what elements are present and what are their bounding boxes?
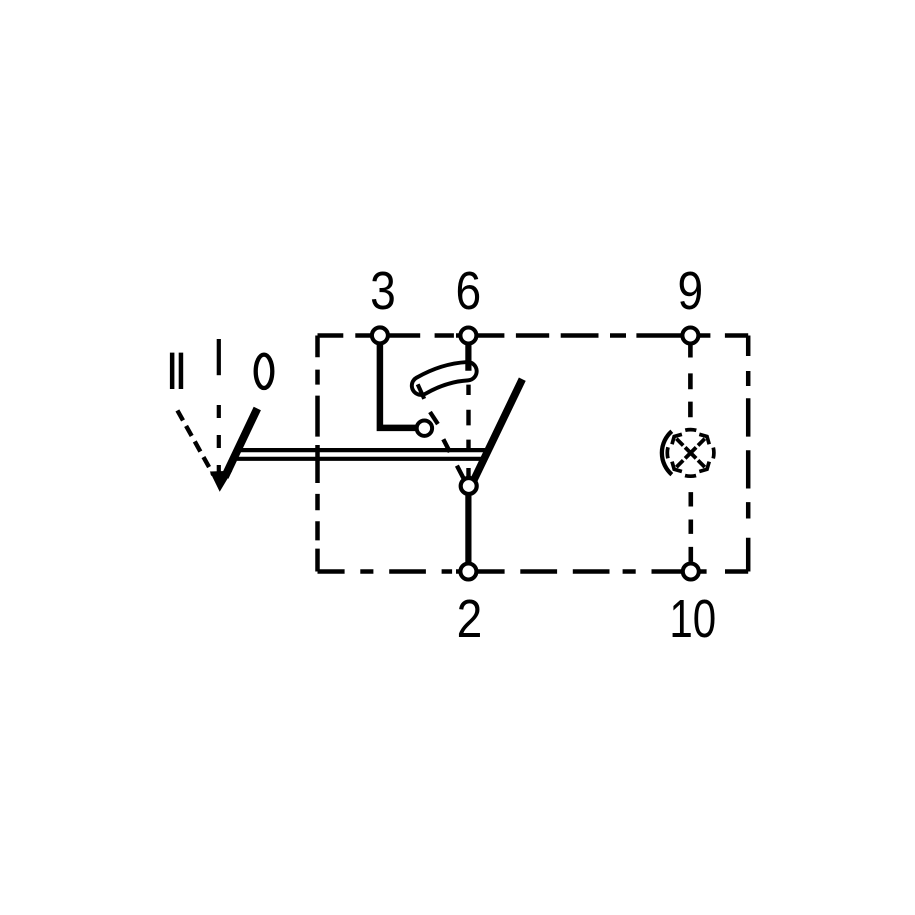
svg-text:2: 2 — [457, 589, 483, 649]
dashed line terminal 6 to pivot — [466, 385, 470, 478]
lamp cross center x — [685, 447, 696, 458]
terminal 3 — [372, 327, 388, 343]
actuator dashed line position I — [217, 405, 221, 475]
terminal 10 — [683, 564, 699, 580]
arc arrow tail barb — [418, 384, 425, 399]
svg-text:6: 6 — [456, 261, 482, 321]
contact tick above fixed contact — [430, 412, 438, 424]
terminal 2 — [460, 564, 476, 580]
terminal 9 — [682, 328, 698, 344]
wire from terminal 3 to fixed contact — [380, 340, 416, 428]
spring-return arc arrow (outlined band) — [421, 371, 468, 386]
svg-text:9: 9 — [677, 261, 703, 321]
dashed enclosure border left — [315, 336, 320, 572]
dashed enclosure border top — [318, 333, 749, 338]
actuator arrowhead — [210, 471, 233, 492]
svg-text:3: 3 — [370, 261, 396, 321]
lamp cross arrow chevrons — [672, 434, 709, 471]
actuator lever (position 0, solid) — [225, 409, 257, 478]
dashed enclosure border right — [746, 336, 751, 572]
wire stub below terminal 9 — [688, 340, 693, 358]
wire stub below terminal 6 — [465, 337, 471, 371]
lamp symbol — [662, 430, 714, 477]
mechanical link double line top — [240, 448, 489, 452]
terminal 6 — [460, 328, 476, 344]
svg-text:10: 10 — [669, 589, 716, 649]
label II — [172, 353, 181, 389]
dashed switch arm (position II) — [443, 439, 466, 484]
pivot contact circle — [461, 478, 477, 494]
dashed enclosure border bottom — [318, 569, 749, 574]
label 0 — [256, 355, 273, 388]
dashed line terminal 9 to lamp — [688, 373, 693, 417]
wire pivot to terminal 2 — [465, 486, 471, 572]
lamp dashed circle — [667, 430, 714, 477]
switch arm (solid) — [472, 379, 523, 484]
actuator dashed line position II — [177, 410, 213, 475]
fixed contact circle — [417, 421, 432, 436]
dashed line lamp to terminal 10 — [688, 492, 693, 562]
mechanical link double line bottom — [237, 457, 482, 461]
lamp cross shafts — [676, 439, 704, 467]
label I — [217, 339, 221, 375]
illumination arc — [662, 431, 672, 474]
